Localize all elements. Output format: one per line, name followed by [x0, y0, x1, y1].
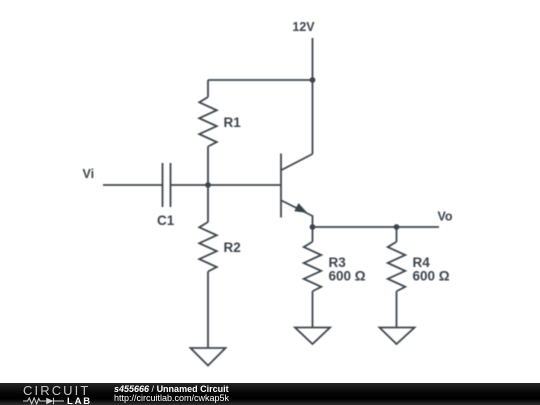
CircuitLab logo LAB text — [67, 396, 92, 405]
wire R4 top lead — [396, 227, 398, 242]
CircuitLab logo schematic row — [23, 397, 64, 405]
svg-text:Vo: Vo — [438, 210, 453, 224]
ground below R2 — [191, 348, 226, 366]
CircuitLab logo wordmark — [23, 383, 90, 398]
ground below R4 — [380, 328, 415, 345]
svg-text:Vi: Vi — [83, 167, 95, 181]
wire R3 top lead — [312, 227, 314, 242]
node emitter junction — [310, 224, 316, 230]
wire C1 to base node — [171, 184, 282, 186]
resistor R3 600 ohm — [304, 242, 322, 292]
footer url — [114, 394, 229, 403]
wire R3 bottom lead — [312, 291, 314, 327]
transistor Q1 — [281, 154, 313, 228]
wire R4 bottom lead — [396, 291, 398, 327]
node base junction — [205, 182, 211, 188]
resistor R4 600 ohm — [388, 242, 406, 292]
svg-text:R2: R2 — [224, 240, 241, 255]
wire 12V supply lead / collector vertical — [312, 38, 314, 154]
node Vo junction — [394, 224, 400, 230]
ground below R3 — [295, 328, 330, 345]
footer circuit title — [114, 385, 229, 394]
capacitor C1 — [157, 163, 175, 228]
resistor R2 — [199, 222, 217, 272]
node junction at 12V rail — [310, 77, 316, 83]
wire R2 top lead — [207, 185, 209, 222]
svg-text:R1: R1 — [224, 115, 242, 130]
wire R1 bottom lead — [207, 147, 209, 186]
wire top horizontal to R1 — [208, 79, 313, 81]
svg-text:12V: 12V — [292, 20, 315, 34]
wire R1 top lead — [207, 80, 209, 97]
wire Vi input — [103, 184, 163, 186]
svg-text:C1: C1 — [157, 213, 175, 228]
svg-text:600 Ω: 600 Ω — [413, 269, 450, 284]
svg-text:600 Ω: 600 Ω — [329, 269, 366, 284]
footer bar — [0, 383, 540, 405]
wire R2 bottom lead — [207, 272, 209, 349]
resistor R1 — [199, 97, 217, 147]
wire emitter output rail — [313, 226, 440, 228]
